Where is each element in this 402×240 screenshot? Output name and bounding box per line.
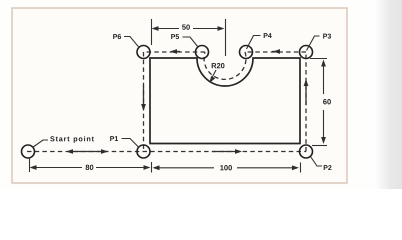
part outline (rectangle with R20 notch) [150,58,300,144]
label R20 [212,63,225,68]
circle P6 [137,46,150,59]
shared extension line between 80 and 100 [151,162,153,173]
label P4 [264,33,272,38]
label 100 [220,165,232,170]
direction arrow P1 to P2 (right) [212,149,242,154]
leader for label P6 [124,37,139,47]
dimension 80 extension line left (below start point) [29,158,31,173]
dimension 80 line and arrows [30,165,151,170]
direction arrow P3 to P4 (left) [272,49,280,54]
circle Start point [22,145,35,158]
label P1 [110,136,118,141]
circle P4 [240,46,253,59]
label Start point [50,136,94,143]
toolpath bottom (Start to P1 to P2, dashed) [27,151,306,153]
dimension 60 extension line bottom [312,145,327,147]
circle P2 [300,145,313,158]
label P5 [171,34,179,39]
toolpath top right (P3 to P4, dashed) [245,51,306,53]
leader for label P4 [247,36,261,50]
label 80 [86,165,94,170]
label 50 [182,24,190,29]
label P2 [324,165,332,170]
dimension 50 extension line right [225,19,227,56]
dimension 100 line and arrows [153,165,300,170]
dimension 60 line and arrows [321,60,326,145]
dimension 100 extension line right (below P2) [300,163,302,173]
toolpath right (P2 to P3, dashed) [305,52,307,152]
label P3 [323,34,331,39]
circle P5 [196,46,209,59]
direction double arrow Start-P1 [66,149,108,154]
label 60 [323,99,331,104]
toolpath left (P6 to P1, dashed) [143,52,145,152]
direction arrow P2 to P3 (up) [304,79,309,105]
leader for label P1 [122,139,140,148]
direction arrow P6 to P1 (down) [141,86,146,111]
leader for label P3 [307,36,320,51]
leader for label P5 [183,37,199,47]
dimension 50 line and arrows [152,26,225,31]
leader for label R20 with arrowhead [210,70,217,83]
label P6 [113,34,121,39]
leader for label Start point [33,140,49,148]
toolpath notch arc (P4 to P5, dashed R20 offset) [204,52,246,79]
circle P1 [137,145,150,158]
toolpath top left (P5 to P6, dashed) [144,51,206,53]
circle P3 [300,46,313,59]
dimension 50 extension line left [151,19,153,45]
direction arrow P5 to P6 (left) [170,49,180,54]
dimension 60 extension line top [310,58,327,60]
leader for label P2 [311,157,323,167]
